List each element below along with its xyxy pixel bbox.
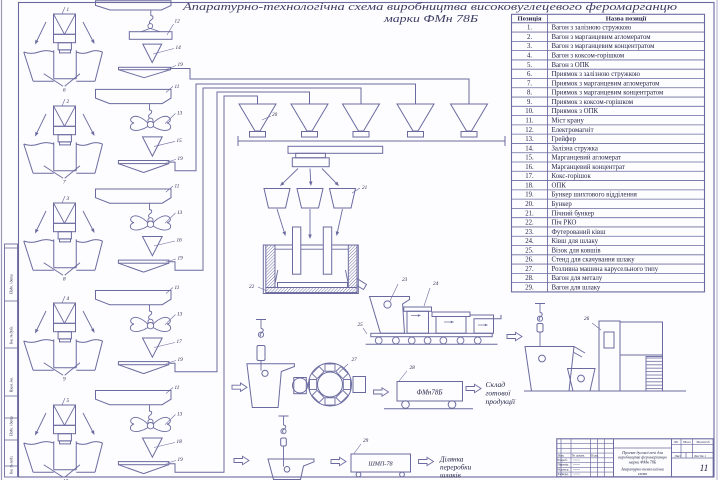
svg-text:№ докум.: № докум. [572,453,585,457]
charge bunker 19 (unit 3) [118,260,168,263]
svg-text:Ділянка: Ділянка [439,456,464,464]
svg-text:Бункер: Бункер [552,201,573,208]
svg-text:8.: 8. [527,90,532,97]
wire bunker4 to feed hopper 2 [169,92,310,372]
svg-text:продукції: продукції [486,397,517,406]
svg-text:19: 19 [178,457,184,463]
svg-text:Апаратурно-технологічна схема: Апаратурно-технологічна схема виробництв… [182,2,677,13]
svg-text:схема: схема [638,472,647,476]
lining corner chamfers [275,270,278,283]
svg-text:13: 13 [177,110,183,116]
slag ladle 24 #2 [432,312,470,317]
svg-text:11.: 11. [525,117,534,124]
svg-text:18.: 18. [525,182,534,189]
svg-text:шлаків: шлаків [440,472,461,480]
wire bunker5 to feed hopper 1 [169,96,258,472]
wagon 2 discharge neck [58,135,71,142]
svg-text:6: 6 [63,88,66,94]
unloading arrows [37,211,46,230]
svg-text:Грейфер: Грейфер [552,136,577,143]
svg-text:Марганцевий концентрат: Марганцевий концентрат [552,164,625,171]
flow arrow to slag wagon [331,457,346,465]
slag wagon 29 [351,454,411,472]
stand tower [599,321,620,391]
svg-text:8: 8 [63,277,66,283]
material cone unit 4 [143,338,163,357]
crane bridge 11 (unit 5) [96,391,172,405]
svg-text:9: 9 [63,377,66,383]
svg-text:25.: 25. [525,247,534,254]
svg-text:19: 19 [178,156,184,162]
svg-text:6.: 6. [527,71,532,78]
svg-text:1.: 1. [527,25,532,32]
svg-text:Н.контр.: Н.контр. [558,467,570,471]
unloading arrows [37,413,46,432]
metal bath [278,283,348,288]
unloading arrows [37,22,46,41]
furnace bunkers 21 [264,189,290,209]
material cone unit 2 [143,137,163,156]
svg-text:Електромагніт: Електромагніт [552,127,594,134]
svg-text:28: 28 [410,365,416,371]
wagon 1 label [62,7,65,14]
svg-text:Розроб.: Розроб. [558,458,568,462]
svg-text:13: 13 [177,312,183,318]
slag ladle (bottom) [268,459,314,480]
svg-text:14: 14 [176,44,182,51]
svg-text:21.: 21. [525,210,534,217]
flow arrow into metal wagon [374,388,389,396]
wagon 3 body with V [54,203,76,223]
charge bunker 19 (unit 5) [118,462,168,465]
ground line [524,390,686,392]
slag-dump ladle [525,347,574,392]
svg-text:Вагон з коксом-горішком: Вагон з коксом-горішком [552,53,625,60]
feed hopper 20 #1 [239,104,276,131]
svg-text:переробки: переробки [440,464,472,472]
svg-text:19: 19 [178,62,184,68]
svg-text:5: 5 [67,398,70,404]
pit V chute [44,74,63,87]
svg-text:Назва позиції: Назва позиції [606,16,647,23]
charge bunker 19 (unit 2) [118,161,168,164]
slag ladle 24 #1 [404,307,432,311]
svg-text:~~~~: ~~~~ [573,463,580,467]
wagon 3 label [62,196,65,203]
svg-text:24: 24 [433,280,439,287]
svg-text:Маса: Маса [683,440,691,444]
pit 8 (приямок) [53,239,55,267]
svg-text:Приямок з коксом-горішком: Приямок з коксом-горішком [552,99,634,106]
svg-text:2.: 2. [527,34,532,41]
electromagnet 12 [129,32,172,40]
svg-text:Подп.: Подп. [591,453,599,457]
svg-text:Подп. і дата: Подп. і дата [10,416,14,437]
svg-text:4: 4 [67,295,70,302]
wire bunker2 to feed hopper 4 [169,84,416,171]
svg-text:20.: 20. [525,201,534,208]
tap spout [357,278,367,289]
crane bridge 11 (unit 4) [96,291,172,305]
svg-text:29.: 29. [525,285,534,292]
svg-text:Лист: Лист [675,454,682,458]
svg-text:Вагон для металу: Вагон для металу [552,275,603,282]
pit V chute [44,166,63,179]
svg-text:3: 3 [67,196,70,202]
wagon 3 discharge neck [58,232,71,239]
svg-text:марки ФМн 78Б: марки ФМн 78Б [383,14,478,25]
pit 6 (приямок) [53,50,55,78]
svg-text:10.: 10. [525,108,534,115]
title block (stamp) [557,439,713,477]
svg-text:Міст крану: Міст крану [552,117,585,124]
svg-text:2: 2 [67,99,70,105]
svg-text:Взам. інв.: Взам. інв. [10,377,14,392]
unloading arrows [37,311,46,330]
svg-text:29: 29 [363,438,369,444]
wagon 2 body with V [54,106,76,126]
svg-text:Футерований ківш: Футерований ківш [552,229,607,236]
wagon 5 label [62,398,65,405]
svg-text:Залізна стружка: Залізна стружка [552,145,598,152]
grab (грейфер 13) unit 5 [153,417,171,431]
furnace outer shell [263,245,358,294]
flow arrow to slag processing [419,457,434,465]
svg-text:19: 19 [178,357,184,363]
material cone unit 5 [143,438,163,457]
hook above slag-dump ladle [535,303,545,305]
hook of crane 1 [149,10,153,24]
svg-text:Інв. № подл.: Інв. № подл. [10,455,14,475]
svg-text:11: 11 [175,84,180,90]
svg-text:16.: 16. [525,164,534,171]
pit V chute [44,465,63,478]
stand building [620,322,663,391]
svg-text:14.: 14. [525,145,534,152]
svg-text:11: 11 [700,464,709,474]
iron shavings 14 (material cone) [143,44,162,62]
conveyor/weigher bars [288,146,383,153]
crane bridge 11 (unit 3) [96,189,172,203]
svg-text:Масштаб: Масштаб [696,440,709,444]
stamp centre area [614,447,672,449]
svg-text:~~~~: ~~~~ [573,458,580,462]
svg-text:Вагон з залізною стружкою: Вагон з залізною стружкою [552,25,632,32]
svg-text:13: 13 [177,412,183,418]
svg-text:7: 7 [63,180,66,186]
flow arrow into casting ladle [232,383,247,391]
svg-text:Вагон з марганцевим концентрат: Вагон з марганцевим концентратом [552,43,656,50]
svg-text:ШМП-78: ШМП-78 [367,461,393,468]
svg-text:Ківш для шлаку: Ківш для шлаку [552,238,599,245]
svg-text:Листів 1: Листів 1 [694,454,706,458]
material cone unit 3 [143,237,163,256]
svg-text:~~~~: ~~~~ [573,467,580,471]
svg-text:ОПК: ОПК [552,182,567,189]
feed lines into furnace [277,209,284,232]
wagon 2 label [62,99,65,106]
svg-text:11: 11 [175,385,180,391]
hook of crane 2 [149,104,152,118]
svg-text:3.: 3. [527,43,532,50]
ladle car wheels [375,337,382,344]
pit 10 (приямок) [53,441,55,469]
svg-text:26: 26 [584,316,590,322]
lined ladle 23 [370,297,410,334]
svg-text:Інв. № дубл.: Інв. № дубл. [10,326,14,345]
wagon 1 body with V [54,14,76,34]
svg-text:5.: 5. [527,62,532,69]
flow arrow into slag ladle [234,456,249,464]
svg-text:Піч РКО: Піч РКО [552,220,577,227]
svg-text:18: 18 [177,439,183,445]
carousel casting machine 27 [309,363,352,406]
svg-text:12.: 12. [525,127,534,134]
wagon 4 discharge neck [58,332,71,339]
svg-text:Стенд для скачування шлаку: Стенд для скачування шлаку [552,257,636,264]
carousel discharge box [353,377,366,393]
hook of crane 3 [149,203,152,217]
stamp left grid [560,439,562,477]
svg-text:22.: 22. [525,220,534,227]
svg-text:17: 17 [177,339,183,345]
svg-text:Літ: Літ [674,440,679,444]
svg-text:7.: 7. [527,80,532,87]
wire bunker1 to feed hopper 5 [171,69,470,105]
svg-text:Кокс-горішок: Кокс-горішок [552,173,592,180]
crane hook with weight above ladle [256,319,266,321]
feed hopper 20 #2 [291,104,328,131]
svg-text:Візок для ковшів: Візок для ковшів [552,247,601,254]
svg-text:Подп. і дата: Подп. і дата [10,274,14,295]
charge bunker 19 (unit1) [119,67,171,69]
svg-text:9.: 9. [527,99,532,106]
wagon 4 body with V [54,303,76,323]
svg-text:25: 25 [358,322,364,328]
svg-text:27: 27 [352,357,358,363]
electrode 1 [293,227,301,274]
svg-text:марки ФМн 78Б: марки ФМн 78Б [628,459,657,464]
svg-text:19.: 19. [525,192,534,199]
sheet left edge line [1,0,3,480]
svg-text:27.: 27. [525,266,534,273]
positions table [512,14,705,292]
metal wagon 28 [397,382,463,402]
svg-text:Вагон для шлаку: Вагон для шлаку [552,285,601,292]
svg-text:12: 12 [175,19,181,25]
wagon 5 discharge neck [58,434,71,441]
wagon 1 discharge neck [58,43,71,50]
svg-text:13.: 13. [525,136,534,143]
svg-text:11: 11 [175,184,180,190]
hook of crane 5 [149,405,152,419]
crane hook with weight above slag ladle [279,415,289,417]
pit 9 (приямок) [53,339,55,367]
flow arrow to warehouse [466,384,481,392]
left margin stamp strip [5,244,18,477]
svg-text:1: 1 [67,7,70,13]
svg-text:~~~~: ~~~~ [573,472,580,476]
svg-text:13: 13 [177,210,183,216]
svg-text:Позиція: Позиція [517,16,542,23]
wire bunker3 to feed hopper 3 [169,88,361,270]
svg-text:Марганцевий агломерат: Марганцевий агломерат [552,155,621,162]
svg-text:11: 11 [175,285,180,291]
crane bridge 11 (unit 1, clipped at top) [96,1,172,10]
svg-text:Перевір.: Перевір. [558,463,570,467]
grab (грейфер 13) unit 2 [153,116,171,130]
svg-text:Вагон з ОПК: Вагон з ОПК [552,62,590,69]
ladle car 25 platform [371,333,492,336]
svg-text:24.: 24. [525,238,534,245]
crane bridge 11 (unit 2) [96,89,172,103]
unloading arrows [37,114,46,133]
stand stairs [646,357,663,392]
hopper rail [238,140,505,142]
svg-text:Приямок з марганцевим концентр: Приямок з марганцевим концентратом [552,90,664,97]
stamp right cells [671,439,673,477]
charge level line [275,248,348,250]
feed hopper 20 #4 [397,104,434,131]
pit V chute [44,363,63,376]
svg-text:Розливна машина карусельного т: Розливна машина карусельного типу [552,266,659,273]
svg-text:Приямок з марганцевим агломера: Приямок з марганцевим агломератом [552,80,661,87]
svg-text:15: 15 [177,138,183,144]
hook of crane 4 [149,305,152,319]
svg-text:15.: 15. [525,155,534,162]
grab (грейфер 13) unit 4 [153,317,171,331]
feed hopper 20 #3 [343,104,380,131]
electrode 2 [323,227,331,274]
svg-text:23: 23 [402,277,408,283]
svg-text:22: 22 [249,284,255,290]
svg-text:23.: 23. [525,229,534,236]
svg-text:21: 21 [362,185,368,191]
svg-text:Затверд.: Затверд. [558,472,569,476]
svg-text:28.: 28. [525,275,534,282]
pit V chute [44,263,63,276]
charge bunker 19 (unit 4) [118,362,168,365]
svg-text:16: 16 [177,238,183,244]
svg-text:20: 20 [272,112,278,118]
casting ladle (bottom left) [247,364,295,408]
wagon 4 label [62,296,65,303]
sheet right edge line [716,0,718,480]
svg-text:Бункер шихтового відділення: Бункер шихтового відділення [552,192,637,199]
svg-text:Изм.: Изм. [558,453,565,457]
flow arrow to slag stand [507,332,522,340]
svg-text:17.: 17. [525,173,534,180]
feed hopper 20 #5 [451,104,488,131]
svg-text:Вагон з марганцевим агломерато: Вагон з марганцевим агломератом [552,34,652,41]
svg-text:Пічний бункер: Пічний бункер [552,210,595,217]
furnace 22 lining (hatched) [266,245,357,293]
slag pot at stand [568,369,596,392]
svg-text:Приямок з залізною стружкою: Приямок з залізною стружкою [552,71,641,78]
pit 7 (приямок) [53,142,55,170]
svg-text:19: 19 [178,256,184,262]
svg-text:4.: 4. [527,53,532,60]
wagon 5 body with V [54,405,76,425]
svg-text:Апаратурно-технологічна: Апаратурно-технологічна [620,468,664,472]
svg-text:ФМн78Б: ФМн78Б [416,389,442,397]
rail under ladle car [366,343,498,345]
svg-text:Приямок з ОПК: Приямок з ОПК [552,108,599,115]
grab (грейфер 13) unit 3 [153,216,171,230]
distribution arrows to furnace bunkers [283,169,298,183]
slag ladle 24 #3 [470,315,501,319]
svg-text:26.: 26. [525,257,534,264]
carousel drive housing [294,378,307,394]
